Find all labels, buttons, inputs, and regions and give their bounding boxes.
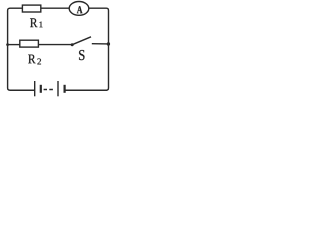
label S (79, 50, 84, 60)
ammeter letter A (77, 6, 83, 13)
switch S pivot contact dot (71, 43, 74, 46)
battery cell 2 short plate (negative) (63, 85, 65, 93)
node: right junction (107, 42, 110, 45)
wire: right vertical (top-right corner down to bottom-right corner) (106, 8, 108, 90)
wire: top segment from corner to R1 (10, 7, 23, 9)
node: left junction (6, 43, 9, 46)
ammeter U1 (circle) (69, 1, 89, 15)
wire: middle segment from switch right contact to right vertical (92, 43, 109, 45)
wire: top segment from R1 to ammeter (41, 7, 70, 9)
resistor R2 (20, 40, 39, 47)
battery cell 2 long plate (positive) (57, 81, 59, 96)
wire: bottom segment from battery to bottom-right corner (65, 89, 107, 91)
battery cell 1 short plate (negative) (40, 85, 42, 93)
switch S lever (open blade) (72, 37, 91, 45)
wire: middle segment from R2 to switch pivot (38, 44, 72, 46)
wire: top segment from ammeter to top-right corner (89, 7, 107, 9)
wire: left vertical (top-left corner down to bottom-left corner) (8, 8, 10, 90)
battery cell 1 long plate (positive) (34, 81, 36, 96)
resistor R1 (22, 5, 40, 12)
label R1 (30, 18, 37, 27)
wire: middle segment from left junction to R2 (8, 44, 20, 46)
wire: dashed link between battery cells (44, 89, 53, 91)
label R2 (28, 55, 35, 64)
wire: bottom segment from bottom-left corner to battery (10, 89, 35, 91)
